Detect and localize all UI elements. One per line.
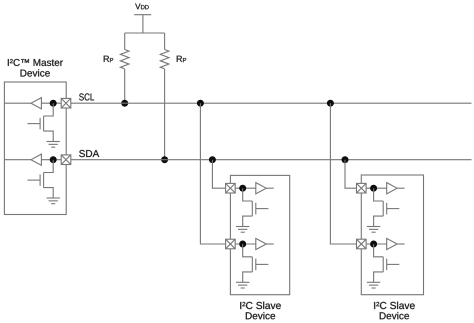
- pin slave1 SCL pad: [226, 239, 236, 249]
- wire SDA bus line: [66, 159, 472, 161]
- node junction SCL-slave2: [327, 100, 334, 107]
- buffer (input) master SCL: [31, 98, 41, 109]
- wire left pullup top: [124, 33, 126, 50]
- label RP1: [104, 56, 113, 62]
- wire slave2 SCL internal: [361, 243, 386, 245]
- ground slave1 SDA: [236, 227, 249, 233]
- node master SCL junction: [50, 100, 57, 107]
- wire SCL drop to slave2: [330, 103, 361, 244]
- transistor master SDA open-drain NMOS: [28, 160, 54, 198]
- node slave2 SDA junction: [370, 185, 377, 192]
- node master SDA junction: [50, 156, 57, 163]
- pin slave2 SCL pad: [357, 239, 367, 249]
- label RP2: [177, 56, 186, 62]
- buffer (input) slave1 SCL: [256, 238, 266, 249]
- buffer (input) slave1 SDA: [256, 183, 266, 194]
- wire SCL bus line: [66, 102, 472, 104]
- wire slave2 SDA buffer stub: [397, 187, 405, 189]
- wire VDD rail: [125, 32, 165, 34]
- pin slave2 SDA pad: [357, 183, 367, 193]
- transistor slave2 SCL open-drain NMOS: [374, 244, 400, 282]
- wire master SDA internal: [5, 159, 62, 161]
- I2C slave2 device box: [361, 175, 423, 295]
- node slave1 SCL junction: [239, 241, 246, 248]
- pin slave1 SDA pad: [226, 183, 236, 193]
- transistor slave2 SDA open-drain NMOS: [374, 188, 400, 226]
- wire right pullup bottom (crosses SCL): [164, 69, 166, 160]
- I2C master device box: [4, 82, 66, 215]
- node slave1 SDA junction: [239, 185, 246, 192]
- transistor slave1 SDA open-drain NMOS: [243, 188, 269, 226]
- wire right pullup top: [164, 33, 166, 50]
- label I2C Slave 2 line2: [380, 312, 409, 319]
- ground master SCL: [47, 142, 60, 148]
- node junction RP1-SCL: [121, 100, 128, 107]
- pin master SDA pad: [61, 155, 71, 165]
- power VDD bar symbol: [134, 14, 151, 16]
- wire SDA drop to slave1: [212, 160, 230, 189]
- node junction RP2-SDA: [161, 156, 168, 163]
- power VDD label: [135, 4, 149, 10]
- wire slave1 SDA internal: [230, 187, 255, 189]
- node junction SDA-slave2: [342, 156, 349, 163]
- node junction SCL-slave1: [197, 100, 204, 107]
- ground master SDA: [47, 198, 60, 204]
- wire left pullup bottom: [124, 69, 126, 103]
- pin master SCL pad: [61, 98, 71, 108]
- buffer (input) slave2 SCL: [387, 238, 397, 249]
- node slave2 SCL junction: [370, 241, 377, 248]
- wire slave1 SDA buffer stub: [266, 187, 274, 189]
- wire VDD stem: [142, 15, 144, 33]
- label I2C Slave 1 line2: [246, 312, 275, 319]
- label I2C Slave 1 line1: [240, 302, 281, 309]
- resistor RP1 (SCL pull-up): [120, 50, 129, 69]
- wire slave1 SCL internal: [230, 243, 255, 245]
- ground slave1 SCL: [236, 282, 249, 288]
- node junction SDA-slave1: [209, 156, 216, 163]
- wire master SCL internal: [5, 102, 62, 104]
- label I2C Master Device line2: [21, 69, 50, 76]
- buffer (input) master SDA: [31, 154, 41, 165]
- ground slave2 SDA: [367, 227, 380, 233]
- wire SCL drop to slave1: [200, 103, 230, 244]
- resistor RP2 (SDA pull-up): [160, 50, 169, 69]
- label I2C Slave 2 line1: [374, 302, 415, 309]
- wire slave1 SCL buffer stub: [266, 243, 274, 245]
- wire SDA drop to slave2: [345, 160, 361, 189]
- transistor slave1 SCL open-drain NMOS: [243, 244, 269, 282]
- buffer (input) slave2 SDA: [387, 183, 397, 194]
- wire slave2 SCL buffer stub: [397, 243, 405, 245]
- label I2C Master Device line1: [8, 59, 63, 66]
- transistor master SCL open-drain NMOS: [28, 103, 54, 141]
- wire slave2 SDA internal: [361, 187, 386, 189]
- label SDA: [79, 150, 99, 157]
- ground slave2 SCL: [367, 282, 380, 288]
- label SCL: [79, 93, 94, 100]
- I2C slave1 device box: [230, 175, 289, 294]
